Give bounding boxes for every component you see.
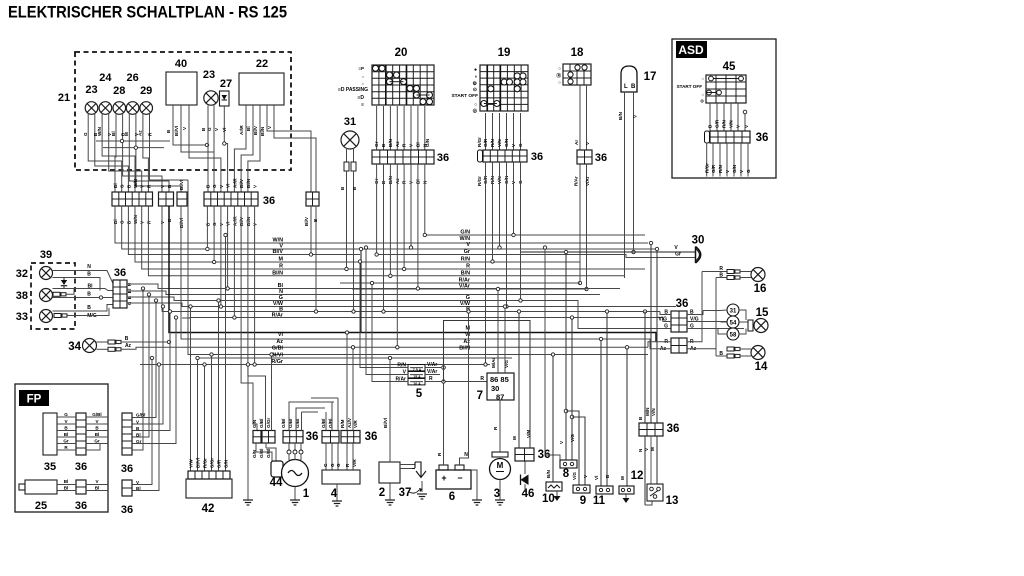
left harness verticals <box>132 287 178 491</box>
svg-text:B: B <box>638 416 643 420</box>
fuse box 5 <box>408 365 425 401</box>
svg-text:Bl/Vl: Bl/Vl <box>383 418 388 428</box>
svg-text:○: ○ <box>558 80 561 85</box>
svg-text:G: G <box>518 143 523 147</box>
title ELEKTRISCHER SCHALTPLAN - RS 125 <box>8 4 287 22</box>
svg-text:12: 12 <box>631 470 644 482</box>
connector 36 right lower <box>637 272 716 354</box>
svg-text:●: ● <box>474 67 477 73</box>
tail lamp 15 <box>748 307 769 333</box>
wires ASD 45 to connector <box>708 103 750 131</box>
svg-text:V: V <box>253 184 258 188</box>
wires switch 18 to connector <box>574 85 590 150</box>
svg-text:46: 46 <box>522 488 535 500</box>
svg-text:15: 15 <box>756 307 769 319</box>
svg-text:M: M <box>650 447 655 451</box>
svg-text:V/W: V/W <box>188 459 193 468</box>
svg-text:V: V <box>95 479 99 484</box>
svg-text:G: G <box>212 184 217 188</box>
svg-text:36: 36 <box>756 132 769 144</box>
switch unit 19 (ignition) <box>451 47 528 114</box>
svg-text:Az: Az <box>395 141 400 147</box>
connector block C <box>177 192 187 206</box>
svg-text:G: G <box>323 463 328 467</box>
svg-text:Bl: Bl <box>113 183 118 188</box>
wires lamp 17 <box>618 92 638 278</box>
wires 25 to 36 <box>57 479 108 491</box>
svg-text:Bl: Bl <box>95 486 100 491</box>
svg-text:G: G <box>83 132 88 136</box>
fuse pair under lamp 31 <box>340 148 357 192</box>
svg-text:Gr: Gr <box>374 141 379 147</box>
svg-text:M: M <box>279 257 284 263</box>
svg-text:Bl/N: Bl/N <box>272 270 283 276</box>
svg-text:V: V <box>466 242 470 248</box>
svg-text:40: 40 <box>175 58 187 70</box>
indicator lamp 29 <box>140 85 153 114</box>
svg-text:G/Bl: G/Bl <box>321 419 326 428</box>
svg-text:G/Bl: G/Bl <box>266 449 271 458</box>
svg-text:V/G: V/G <box>570 434 575 442</box>
unit 25 <box>19 480 57 512</box>
indicator lamp 28 <box>113 85 126 114</box>
svg-text:W/N: W/N <box>97 126 102 136</box>
svg-text:Az: Az <box>125 343 132 349</box>
rear switch 13 <box>638 436 678 507</box>
svg-text:28: 28 <box>113 85 125 97</box>
svg-text:Gr: Gr <box>675 251 681 257</box>
svg-text:+: + <box>441 473 446 483</box>
switch 11 <box>593 310 613 507</box>
svg-text:V/N: V/N <box>729 120 734 128</box>
wires lamp 33 <box>53 305 114 320</box>
svg-text:G/N: G/N <box>504 138 509 147</box>
svg-text:7: 7 <box>477 390 483 402</box>
wires lamp 32 <box>53 264 114 291</box>
svg-text:V: V <box>674 245 678 251</box>
svg-text:45: 45 <box>723 61 736 73</box>
svg-text:B/N: B/N <box>461 270 470 276</box>
wire V to switch 8 area <box>543 246 560 460</box>
CDI unit 4 <box>322 470 360 500</box>
svg-text:R/M: R/M <box>340 419 345 428</box>
connector 36 block generator <box>281 419 318 443</box>
svg-text:≡D PASSING: ≡D PASSING <box>338 87 368 93</box>
svg-text:23: 23 <box>85 84 97 96</box>
svg-text:B: B <box>64 426 68 431</box>
svg-text:G/Bl: G/Bl <box>259 419 264 428</box>
ground CDI <box>332 484 342 506</box>
svg-text:Vl: Vl <box>226 184 231 188</box>
svg-text:G/R: G/R <box>483 138 488 147</box>
ASD inset box <box>672 39 776 178</box>
svg-text:39: 39 <box>40 249 52 261</box>
wire V to M link <box>359 247 362 332</box>
connector 36 block A <box>112 192 153 206</box>
svg-text:M: M <box>124 132 129 136</box>
svg-text:G: G <box>746 169 751 173</box>
svg-text:Bl: Bl <box>136 486 141 491</box>
svg-text:G/N: G/N <box>252 419 257 428</box>
wires connector D down to bus <box>206 206 266 431</box>
svg-text:V: V <box>559 440 564 444</box>
svg-text:R/N: R/N <box>722 119 727 128</box>
svg-text:R/N: R/N <box>461 256 470 262</box>
spark plug 37 <box>399 462 427 499</box>
wires above connector blockA <box>256 353 276 462</box>
svg-text:Bl/V: Bl/V <box>273 249 284 255</box>
wire labels connector row <box>113 178 258 228</box>
svg-text:V/N: V/N <box>497 139 502 147</box>
svg-text:START OFF: START OFF <box>451 93 478 99</box>
svg-text:R/Gr: R/Gr <box>271 359 284 365</box>
svg-text:Bl: Bl <box>64 486 69 491</box>
svg-text:33: 33 <box>16 311 28 323</box>
svg-text:V: V <box>585 141 590 145</box>
svg-text:G/Bl: G/Bl <box>259 449 264 458</box>
regulator 44 <box>270 461 283 489</box>
plug lamp 38 <box>53 292 66 296</box>
plug lamp 33 <box>54 314 67 318</box>
svg-text:36: 36 <box>121 463 133 475</box>
svg-text:16: 16 <box>754 283 767 295</box>
svg-text:Bl/Vl: Bl/Vl <box>179 180 184 190</box>
svg-text:○: ○ <box>558 66 561 71</box>
wires below connector 20 <box>374 175 427 184</box>
svg-text:36: 36 <box>306 431 319 443</box>
wires from units 40 22 27 <box>166 105 316 192</box>
svg-text:M: M <box>620 476 625 480</box>
switch 9 <box>566 411 590 507</box>
svg-text:≡D: ≡D <box>357 95 364 101</box>
svg-text:38: 38 <box>16 290 28 302</box>
horn 30 <box>674 235 704 264</box>
connector 36 right upper <box>658 298 744 332</box>
svg-text:G: G <box>336 463 341 467</box>
svg-text:8: 8 <box>563 468 570 480</box>
wires from connector E down <box>309 206 317 313</box>
svg-text:○: ○ <box>701 92 704 97</box>
svg-text:G: G <box>64 412 68 417</box>
svg-text:13: 13 <box>666 495 679 507</box>
svg-text:Az: Az <box>138 130 143 136</box>
svg-text:27: 27 <box>220 78 232 90</box>
svg-text:3: 3 <box>494 488 500 500</box>
svg-text:V/Ar: V/Ar <box>585 176 590 186</box>
connector 36 block CDI <box>321 417 377 443</box>
svg-text:G: G <box>207 127 212 131</box>
bus wires group C <box>140 180 656 365</box>
svg-text:G/Bl: G/Bl <box>272 346 284 352</box>
lamp 17 headlight <box>621 66 656 92</box>
svg-text:B: B <box>719 351 723 357</box>
svg-text:36: 36 <box>437 152 449 164</box>
indicator lamp 23 <box>85 84 98 114</box>
svg-text:W/N: W/N <box>460 236 471 242</box>
lamp 14 <box>716 346 768 374</box>
svg-text:Bl: Bl <box>415 142 420 147</box>
starter motor 3 <box>490 400 511 505</box>
svg-text:G/Gr: G/Gr <box>266 418 271 428</box>
svg-text:L: L <box>624 84 628 90</box>
lamp 38 <box>16 289 53 303</box>
wires below connector 18 <box>574 164 591 291</box>
connector 36 in FP lower <box>75 480 87 512</box>
svg-text:20: 20 <box>395 47 408 59</box>
svg-text:Gr: Gr <box>136 439 142 444</box>
dashed enclosure 21 <box>75 52 291 170</box>
svg-text:25: 25 <box>35 500 47 512</box>
svg-text:Gr: Gr <box>464 249 471 255</box>
svg-text:Az: Az <box>463 339 470 345</box>
wires right of connector 36 left <box>127 282 676 328</box>
diode in box 39 <box>61 278 67 289</box>
svg-text:36: 36 <box>114 267 126 279</box>
svg-text:R/Ar: R/Ar <box>574 176 579 186</box>
svg-text:5: 5 <box>416 388 423 400</box>
fuse box 5 wires <box>358 246 487 383</box>
switch 8 <box>559 250 577 480</box>
svg-text:V/G: V/G <box>572 472 577 480</box>
connector 36 left <box>113 267 127 308</box>
svg-text:○: ○ <box>362 81 365 86</box>
svg-text:10: 10 <box>542 493 555 505</box>
wires from fuse 31 down <box>345 192 355 313</box>
svg-text:G/N: G/N <box>425 138 430 147</box>
svg-text:Bl: Bl <box>136 433 141 438</box>
svg-text:B: B <box>340 186 345 190</box>
svg-text:R/Gr: R/Gr <box>705 163 710 173</box>
svg-text:N: N <box>87 264 91 270</box>
svg-text:V: V <box>64 419 68 424</box>
svg-text:G/N: G/N <box>223 459 228 468</box>
svg-text:−: − <box>457 473 462 483</box>
svg-text:Bl/V: Bl/V <box>239 178 244 188</box>
FP label <box>19 390 49 406</box>
svg-text:36: 36 <box>75 500 87 512</box>
sensor 27 <box>220 78 233 106</box>
switch unit 45 <box>677 61 746 103</box>
svg-text:R: R <box>480 376 484 382</box>
connector 36 under switch 19 <box>478 150 544 163</box>
svg-text:29: 29 <box>140 85 152 97</box>
svg-text:36: 36 <box>365 431 378 443</box>
svg-text:◎: ◎ <box>700 98 704 103</box>
connector 36 right of motor <box>515 448 550 461</box>
connector 36 rear <box>638 241 679 436</box>
label 21 <box>58 92 70 104</box>
wire coil 2 up <box>383 356 392 462</box>
svg-text:Az/V: Az/V <box>347 417 352 428</box>
unit 40 box <box>166 58 197 105</box>
svg-text:Bl/Vl: Bl/Vl <box>195 458 200 468</box>
svg-text:30: 30 <box>692 235 705 247</box>
svg-text:10 A: 10 A <box>413 382 421 386</box>
bus wires group A <box>115 206 696 289</box>
tail lamp contacts 31 54 58 <box>703 304 752 340</box>
svg-text:G/R: G/R <box>216 459 221 468</box>
svg-text:Gr: Gr <box>63 439 69 444</box>
svg-text:9: 9 <box>580 495 586 507</box>
svg-text:36: 36 <box>595 152 607 164</box>
svg-text:44: 44 <box>270 477 283 489</box>
switch 12 <box>619 346 643 503</box>
svg-text:G: G <box>664 324 668 330</box>
svg-text:31: 31 <box>730 309 737 315</box>
connector 36 block D <box>204 192 275 207</box>
svg-text:Ar\R: Ar\R <box>232 178 237 188</box>
svg-text:Vl: Vl <box>594 476 599 480</box>
connector 36 in ASD <box>705 131 769 144</box>
svg-text:V: V <box>214 127 219 131</box>
svg-text:M/Ar: M/Ar <box>491 358 496 368</box>
svg-text:B: B <box>95 426 99 431</box>
connector 36 outside FP lower <box>121 480 141 516</box>
svg-text:◑: ◑ <box>474 74 477 80</box>
svg-text:V: V <box>95 419 99 424</box>
indicator lamp 26 <box>126 72 139 114</box>
svg-text:M: M <box>512 436 517 440</box>
svg-text:G/R: G/R <box>711 164 716 173</box>
bus labels left group A <box>272 230 471 290</box>
svg-text:36: 36 <box>531 151 543 163</box>
unit 35 <box>43 413 57 473</box>
indicator lamp 24 <box>99 72 112 114</box>
svg-text:24: 24 <box>99 72 112 84</box>
svg-text:Bl: Bl <box>246 126 251 131</box>
svg-text:B: B <box>631 84 636 90</box>
FP inset box <box>15 384 108 512</box>
wires above right connector <box>0 0 1 1</box>
svg-text:31: 31 <box>344 116 356 128</box>
svg-text:15 A: 15 A <box>413 375 421 379</box>
connector block small left of 36 <box>252 418 275 458</box>
svg-text:54: 54 <box>730 321 737 327</box>
battery wires <box>437 310 482 505</box>
switch unit 20 <box>338 47 434 108</box>
lamp 23 (instrument light) <box>203 69 218 105</box>
svg-text:N: N <box>464 452 468 458</box>
connector 36 under switch 18 <box>577 150 607 164</box>
svg-text:G/Bl: G/Bl <box>136 413 145 418</box>
svg-text:Bl/V: Bl/V <box>253 125 258 135</box>
svg-text:19: 19 <box>498 47 511 59</box>
relay 7 <box>477 287 514 402</box>
ground near 42 <box>243 363 253 505</box>
svg-text:R/Gr: R/Gr <box>202 458 207 468</box>
switch unit 18 <box>557 47 592 85</box>
link wires inside cluster <box>96 139 170 149</box>
svg-text:R: R <box>64 445 68 450</box>
generator 1 <box>282 460 310 501</box>
svg-text:58: 58 <box>730 333 737 339</box>
connector block B <box>159 192 174 206</box>
svg-text:11: 11 <box>593 495 606 507</box>
wires below CDI connector <box>323 443 357 470</box>
wires generator pins <box>287 443 303 460</box>
svg-text:R: R <box>148 132 153 136</box>
svg-text:V/R: V/R <box>352 459 357 467</box>
svg-text:34: 34 <box>68 341 81 353</box>
lamp 32 <box>16 267 53 281</box>
connector 36 under switch 20 <box>372 150 449 164</box>
svg-text:G/N: G/N <box>732 164 737 173</box>
sensor 10 <box>542 353 562 505</box>
svg-text:18: 18 <box>571 47 584 59</box>
svg-text:M/N: M/N <box>645 407 650 416</box>
svg-text:Ar\R: Ar\R <box>239 125 244 135</box>
svg-text:36: 36 <box>667 423 680 435</box>
svg-text:B: B <box>87 305 91 311</box>
svg-text:B: B <box>87 292 91 298</box>
svg-text:G: G <box>330 463 335 467</box>
lamp 33 <box>16 310 53 324</box>
svg-text:⊙: ⊙ <box>473 87 477 93</box>
ground generator <box>290 487 300 506</box>
svg-text:6: 6 <box>449 491 455 503</box>
svg-text:B/N: B/N <box>618 111 623 120</box>
svg-text:B/N: B/N <box>546 469 551 478</box>
ignition coil 2 <box>379 462 400 499</box>
svg-text:≡P: ≡P <box>358 66 364 71</box>
wires to unit 42 <box>188 233 228 471</box>
wires 35 to 36 <box>57 412 76 450</box>
svg-text:V/M: V/M <box>526 430 531 438</box>
lamp 34 <box>68 339 96 354</box>
svg-text:Bl/N: Bl/N <box>260 126 265 136</box>
svg-text:V: V <box>182 126 187 130</box>
svg-text:G/Bl: G/Bl <box>281 419 286 428</box>
svg-text:36: 36 <box>75 461 87 473</box>
svg-text:2: 2 <box>379 487 385 499</box>
svg-text:M: M <box>497 461 504 470</box>
svg-text:ELEKTRISCHER SCHALTPLAN - RS 1: ELEKTRISCHER SCHALTPLAN - RS 125 <box>8 4 287 22</box>
svg-text:R: R <box>719 266 723 272</box>
connector block E <box>304 192 319 226</box>
wires above generator connector <box>289 402 334 431</box>
svg-text:R: R <box>493 426 498 430</box>
plug connectors lamp 34 <box>97 336 649 351</box>
battery 6 <box>436 465 471 503</box>
lamp 31 <box>341 116 359 149</box>
svg-text:V/R: V/R <box>353 420 358 428</box>
svg-text:◎: ◎ <box>473 108 478 114</box>
wires above CDI connector <box>311 331 355 431</box>
svg-text:Ⓡ: Ⓡ <box>557 72 562 79</box>
svg-text:Bl: Bl <box>64 432 69 437</box>
wire labels below connector 19 <box>477 175 523 186</box>
svg-text:○: ○ <box>362 74 365 79</box>
svg-text:Vl: Vl <box>222 128 227 132</box>
svg-text:37: 37 <box>399 487 412 499</box>
wires switch 19 to connector <box>477 113 523 150</box>
svg-text:Bl: Bl <box>111 131 116 136</box>
ASD label <box>676 41 707 58</box>
connector 36 in FP upper <box>75 413 87 473</box>
svg-text:36: 36 <box>121 504 133 516</box>
svg-text:7,5 A: 7,5 A <box>413 368 422 372</box>
wires below ASD connector <box>705 143 751 177</box>
svg-text:G/R: G/R <box>715 119 720 128</box>
bus wires group B <box>162 206 663 318</box>
svg-text:Gr: Gr <box>94 439 100 444</box>
wires switch 20 to connector <box>374 106 430 150</box>
svg-text:B: B <box>201 127 206 131</box>
svg-text:START OFF: START OFF <box>677 84 703 89</box>
svg-text:26: 26 <box>126 72 138 84</box>
svg-text:Az: Az <box>276 339 283 345</box>
label 39 <box>40 249 52 261</box>
